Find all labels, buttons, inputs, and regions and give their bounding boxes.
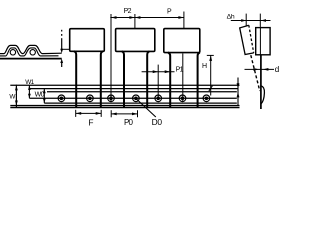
svg-text:Δh: Δh bbox=[227, 14, 235, 21]
svg-text:W0: W0 bbox=[35, 92, 45, 99]
svg-text:d: d bbox=[275, 65, 279, 74]
svg-text:F: F bbox=[88, 118, 93, 128]
svg-text:P2: P2 bbox=[124, 8, 132, 15]
svg-text:P1: P1 bbox=[176, 67, 184, 74]
svg-text:W1: W1 bbox=[25, 79, 34, 86]
svg-text:P: P bbox=[167, 9, 172, 16]
svg-text:W: W bbox=[9, 94, 16, 101]
svg-text:D0: D0 bbox=[152, 117, 163, 127]
svg-text:P0: P0 bbox=[124, 118, 134, 127]
svg-text:H: H bbox=[202, 63, 207, 70]
